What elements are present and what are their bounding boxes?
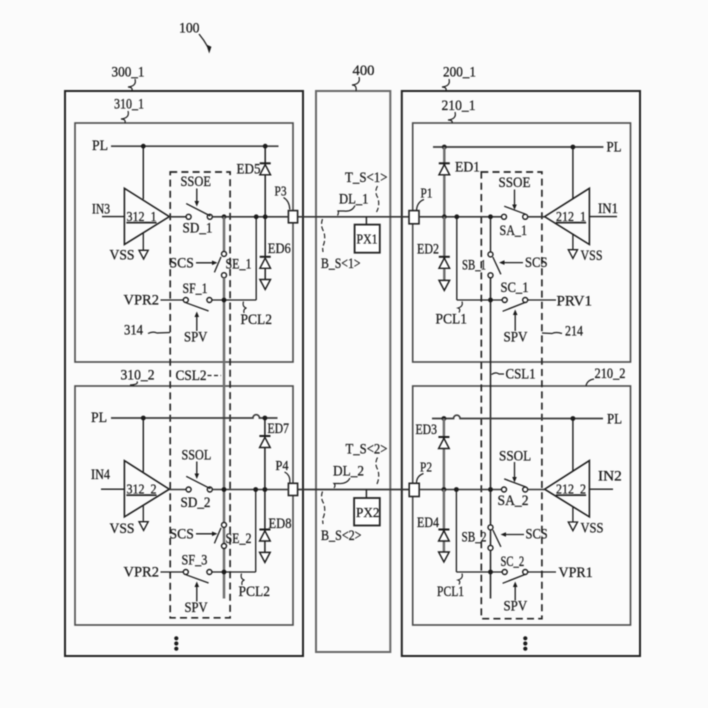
wire SC_1 to PRV1 <box>528 299 556 301</box>
svg-text:314: 314 <box>124 323 144 339</box>
svg-text:SE_1: SE_1 <box>226 257 252 273</box>
label 200_1 with leader <box>442 65 476 92</box>
label ED6 <box>268 241 291 257</box>
label IN2 <box>598 469 622 485</box>
label P1 with leader <box>417 186 433 211</box>
svg-text:VSS: VSS <box>581 248 603 264</box>
junction main wire at ED7/ED8 (310_2) <box>263 487 268 492</box>
svg-text:ED3: ED3 <box>416 422 438 438</box>
wire PL to amplifier 312_1 <box>142 146 144 199</box>
ground VSS (310_2) <box>139 522 148 531</box>
op-amp 212_2 <box>545 461 590 517</box>
wire PCL1 riser to switch SC_2 <box>456 571 502 573</box>
junction SC_2 wire at CSL1 <box>488 570 493 575</box>
junction main wire at CSL2 (310_2) <box>222 487 227 492</box>
wire SA_1 to amp 212_1 <box>528 216 545 218</box>
label B_S<2> with leader <box>321 492 362 545</box>
label 314 with leader <box>124 323 170 339</box>
node DL_2 wire (P4 to P2 through block 400) <box>298 489 410 491</box>
line CSL2 segment in 310_1 <box>223 217 225 252</box>
switch SF_1 <box>183 281 212 311</box>
svg-text:SPV: SPV <box>185 600 209 616</box>
svg-text:SE_2: SE_2 <box>226 531 252 547</box>
wire PL to amplifier 312_2 <box>142 418 144 472</box>
svg-text:ED8: ED8 <box>269 516 292 532</box>
switch SE_2 <box>214 522 251 548</box>
svg-text:DL_1: DL_1 <box>339 192 369 208</box>
svg-text:VSS: VSS <box>581 521 604 537</box>
wire SA_2 to amp 212_2 <box>528 489 545 491</box>
svg-text:SF_1: SF_1 <box>183 281 208 297</box>
net PL line (210_1) <box>433 146 603 148</box>
box 210_1 outline <box>413 123 631 362</box>
svg-text:SCS: SCS <box>526 527 548 543</box>
label ED1 <box>455 160 480 176</box>
wire IN4 input <box>101 488 124 490</box>
switch SC_1 <box>501 280 529 311</box>
label VPR2 (310_2) <box>124 564 160 580</box>
label VSS (210_2) <box>581 521 604 537</box>
wire SF_3 to PCL2 riser <box>212 571 256 573</box>
label SCS (310_1) with control arrow <box>170 255 218 271</box>
wire amp 212_2 to VSS ground <box>572 506 574 522</box>
pad P4 <box>288 483 297 495</box>
wire PCL2 riser (310_1) <box>255 217 257 300</box>
svg-text:PL: PL <box>91 410 107 426</box>
wire pad P2 to switch SA_2 <box>419 489 501 491</box>
wire IN1 input <box>589 216 617 218</box>
svg-text:PCL2: PCL2 <box>239 584 271 600</box>
label SPV (210_1) with control arrow <box>504 310 528 346</box>
label CSL1 with leader <box>492 367 536 383</box>
junction SF_1 wire at CSL2 <box>222 298 227 303</box>
wire amp output to switch SD_2 <box>169 489 186 491</box>
svg-text:CSL2: CSL2 <box>176 368 207 384</box>
label SSOE (210_1) with control arrow <box>499 175 531 210</box>
switch SC_2 <box>501 554 528 583</box>
label 210_2 with leader <box>586 366 626 386</box>
svg-text:CSL1: CSL1 <box>506 367 536 383</box>
switch SF_3 <box>182 553 212 584</box>
svg-text:VSS: VSS <box>110 248 135 264</box>
svg-text:IN4: IN4 <box>91 467 111 483</box>
svg-text:B_S<2>: B_S<2> <box>321 528 362 544</box>
junction on PL at amp supply (210_2) <box>571 416 576 421</box>
svg-text:ED4: ED4 <box>417 515 440 531</box>
svg-text:ED6: ED6 <box>268 241 291 257</box>
junction main wire at PCL2 riser (310_2) <box>253 487 258 492</box>
diode ED7 <box>259 418 270 490</box>
svg-text:SPV: SPV <box>504 330 528 346</box>
label P2 with leader <box>417 460 433 484</box>
wire VPR2 to switch SF_3 <box>161 571 184 573</box>
wire amp 312_2 to VSS ground <box>142 506 144 522</box>
svg-text:PL: PL <box>607 140 622 156</box>
wire SD_1 to pad P3 <box>212 216 288 218</box>
svg-text:PCL1: PCL1 <box>437 584 464 600</box>
box 210_2 outline <box>413 386 631 625</box>
switch SB_1 <box>462 252 501 278</box>
dashed selector box 214 (right column) <box>481 172 542 619</box>
switch SE_1 <box>214 251 251 277</box>
label T_S<1> with leader <box>345 170 388 212</box>
block 300_1 outline <box>65 91 303 656</box>
svg-text:SB_1: SB_1 <box>462 257 486 273</box>
net PL line (310_1) <box>111 145 279 147</box>
svg-text:SA_1: SA_1 <box>500 223 528 239</box>
node DL_1 wire (P3 to P1 through block 400) <box>298 216 409 218</box>
svg-text:PCL2: PCL2 <box>241 312 273 328</box>
junction on PL at amp supply (310_2) <box>141 416 146 421</box>
label VSS (210_1) <box>581 248 603 264</box>
svg-text:210_2: 210_2 <box>595 366 626 382</box>
svg-text:PX1: PX1 <box>357 232 378 248</box>
svg-text:T_S<2>: T_S<2> <box>346 442 388 458</box>
wire SF_1 to PCL2 riser <box>212 299 256 301</box>
svg-text:VPR1: VPR1 <box>559 565 593 581</box>
op-amp 312_1 <box>124 188 169 244</box>
svg-text:400: 400 <box>353 63 375 79</box>
junction main wire at ED3/ED4 (210_2) <box>442 487 447 492</box>
label PL (310_1) <box>92 138 108 154</box>
label DL_1 with leader <box>338 192 369 216</box>
svg-text:SCS: SCS <box>525 255 548 271</box>
svg-text:SF_3: SF_3 <box>182 553 208 569</box>
label 310_1 with leader <box>114 97 144 124</box>
box 310_1 outline <box>75 123 293 362</box>
junction main wire at PCL1 riser (210_2) <box>454 487 459 492</box>
switch SA_1 <box>500 206 528 239</box>
label PCL1 (210_1) with leader <box>436 302 468 328</box>
svg-text:SSOE: SSOE <box>499 175 531 191</box>
continuation dots (right block) <box>523 636 527 651</box>
svg-text:B_S<1>: B_S<1> <box>321 256 361 272</box>
svg-text:ED2: ED2 <box>417 241 439 257</box>
svg-text:VSS: VSS <box>110 521 135 537</box>
junction main wire at ED5/ED6 (310_1) <box>263 214 268 219</box>
wire IN3 input <box>102 216 124 218</box>
label IN3 <box>92 202 110 218</box>
label SPV (210_2) with control arrow <box>504 582 528 615</box>
svg-text:SC_1: SC_1 <box>501 280 529 296</box>
wire PL to amplifier 212_2 <box>572 419 574 472</box>
label SCS (210_2) with control arrow <box>501 527 548 543</box>
label SSOL (310_2) with control arrow <box>182 448 212 480</box>
label ED8 <box>269 516 292 532</box>
svg-text:P4: P4 <box>276 458 289 474</box>
diode ED8 with down arrow <box>259 490 270 563</box>
label SCS (310_2) with control arrow <box>170 526 218 542</box>
junction on PL at ED3 <box>442 416 447 421</box>
switch SD_1 <box>183 204 213 237</box>
svg-text:210_1: 210_1 <box>442 98 476 114</box>
junction main wire at ED1/ED2 (210_1) <box>442 214 447 219</box>
svg-text:SA_2: SA_2 <box>498 493 529 509</box>
svg-text:312_2: 312_2 <box>127 483 157 498</box>
label CSL2 with dashes <box>176 368 222 384</box>
svg-text:SC_2: SC_2 <box>501 554 525 570</box>
switch SB_2 <box>462 525 501 551</box>
line CSL1 from SB_1 down through 210_2 <box>490 278 492 599</box>
label IN1 <box>598 201 618 217</box>
junction on PL at ED1 <box>442 145 447 150</box>
label SPV (310_1) with control arrow <box>184 312 208 346</box>
junction main wire at SB_1 (210_1) <box>488 214 493 219</box>
svg-text:DL_2: DL_2 <box>333 464 364 480</box>
diode ED4 with down arrow <box>438 490 449 563</box>
wire amp 312_1 to VSS ground <box>142 234 144 251</box>
svg-text:312_1: 312_1 <box>127 210 157 225</box>
label VPR1 <box>559 565 593 581</box>
junction on PL at amp supply (310_1) <box>141 144 146 149</box>
svg-text:SD_2: SD_2 <box>181 495 211 511</box>
svg-text:PL: PL <box>607 412 622 428</box>
block 400 outline <box>316 91 390 652</box>
svg-text:IN1: IN1 <box>598 201 618 217</box>
wire SD_2 to pad P4 <box>212 489 288 491</box>
svg-text:PL: PL <box>92 138 108 154</box>
label P4 with leader <box>276 458 290 483</box>
wire PL to amplifier 212_1 <box>572 147 574 199</box>
wire SB_1 stub from main wire <box>490 217 492 252</box>
line CSL2 from SE_1 down through 310_2 <box>223 278 225 599</box>
svg-text:SSOL: SSOL <box>182 448 212 464</box>
wire amp output to switch SD_1 <box>169 216 186 218</box>
label DL_2 with leader <box>333 464 364 489</box>
pad P3 <box>288 211 297 223</box>
label PCL1 (210_2) with leader <box>437 574 464 601</box>
svg-text:SD_1: SD_1 <box>183 221 213 237</box>
svg-text:VPR2: VPR2 <box>124 292 160 308</box>
wire pad P1 to switch SA_1 <box>419 216 502 218</box>
svg-text:P3: P3 <box>275 184 287 200</box>
pixel PX1 box with stub <box>355 217 380 253</box>
svg-text:VPR2: VPR2 <box>124 564 160 580</box>
label PL (310_2) <box>91 410 107 426</box>
label B_S<1> with leader <box>321 219 361 272</box>
svg-text:IN3: IN3 <box>92 202 110 218</box>
diode ED6 with down arrow <box>260 217 271 290</box>
junction main wire at CSL1 (210_2) <box>488 487 493 492</box>
wire amp 212_1 to VSS ground <box>572 234 574 250</box>
label ED3 <box>416 422 438 438</box>
label VSS (310_2) <box>110 521 135 537</box>
label ED2 <box>417 241 439 257</box>
wire SC_2 to VPR1 <box>528 571 556 573</box>
label 400 with leader <box>352 63 375 91</box>
label IN4 <box>91 467 111 483</box>
wire VPR2 to switch SF_1 <box>161 299 184 301</box>
svg-text:310_2: 310_2 <box>121 368 155 384</box>
wire PCL1 riser (210_1) <box>456 217 458 300</box>
label PL (210_2) <box>607 412 622 428</box>
switch SD_2 <box>181 476 213 511</box>
junction main wire at CSL2 (310_1) <box>222 214 227 219</box>
svg-text:SB_2: SB_2 <box>462 530 487 546</box>
diode ED1 <box>439 147 450 217</box>
svg-text:212_2: 212_2 <box>556 483 586 498</box>
svg-text:214: 214 <box>565 324 584 340</box>
label VSS (310_1) <box>110 248 135 264</box>
junction on PL at ED5 (310_1) <box>263 144 268 149</box>
label 210_1 with leader <box>442 98 476 123</box>
svg-text:PCL1: PCL1 <box>436 312 468 328</box>
box 310_2 outline <box>75 386 293 625</box>
ground VSS (310_1) <box>139 250 148 259</box>
svg-text:SCS: SCS <box>170 526 194 542</box>
label VPR2 (310_1) <box>124 292 160 308</box>
svg-text:ED5: ED5 <box>237 162 261 178</box>
wire IN2 input <box>589 488 613 490</box>
label ED7 <box>268 421 290 437</box>
label SPV (310_2) with control arrow <box>185 582 209 617</box>
wire PCL2 riser (310_2) <box>255 490 257 573</box>
dashed selector box 314 (left column) <box>170 172 230 618</box>
svg-text:ED7: ED7 <box>268 421 290 437</box>
svg-text:310_1: 310_1 <box>114 97 144 113</box>
label PL (210_1) <box>607 140 622 156</box>
label SSOL (210_2) with control arrow <box>499 449 531 483</box>
label PCL2 (310_1) with leader <box>241 302 273 329</box>
label PRV1 <box>557 294 593 310</box>
op-amp 312_2 <box>124 461 169 517</box>
ground VSS (210_2) <box>568 522 577 531</box>
diode ED5 <box>260 146 271 217</box>
svg-text:IN2: IN2 <box>598 469 622 485</box>
label PCL2 (310_2) with leader <box>239 574 271 601</box>
reference numeral 100 with leader arrow <box>179 20 211 53</box>
net PL line (210_2) <box>432 415 603 418</box>
label T_S<2> with leader <box>346 442 388 486</box>
switch SA_2 <box>498 479 529 509</box>
junction on PL at ED7 <box>263 416 268 421</box>
svg-text:P2: P2 <box>420 460 432 476</box>
svg-text:SSOE: SSOE <box>181 174 212 190</box>
label ED5 <box>237 162 261 178</box>
svg-text:PX2: PX2 <box>356 505 380 521</box>
svg-text:100: 100 <box>179 20 200 36</box>
label 310_2 with leader <box>121 368 155 387</box>
svg-text:SCS: SCS <box>170 255 194 271</box>
svg-text:SPV: SPV <box>504 599 528 615</box>
diode ED3 <box>438 419 449 490</box>
junction main wire at PCL1 riser (210_1) <box>454 214 459 219</box>
diode ED2 with down arrow <box>439 217 450 291</box>
pad P2 <box>409 483 419 496</box>
pad P1 <box>409 211 419 224</box>
block 200_1 outline <box>402 91 640 656</box>
junction SF_3 wire at CSL2 <box>222 570 227 575</box>
op-amp 212_1 <box>545 188 590 244</box>
label 300_1 with leader <box>112 65 145 92</box>
junction SC_1 wire at CSL1 <box>488 298 493 303</box>
svg-text:ED1: ED1 <box>455 160 480 176</box>
label ED4 <box>417 515 440 531</box>
svg-text:PRV1: PRV1 <box>557 294 593 310</box>
svg-text:SPV: SPV <box>184 330 208 346</box>
wire PCL1 riser (210_2) <box>455 490 457 573</box>
svg-text:T_S<1>: T_S<1> <box>345 170 388 186</box>
svg-text:P1: P1 <box>421 186 433 202</box>
wire PCL1 riser to switch SC_1 <box>457 299 502 301</box>
ground VSS (210_1) <box>568 250 577 259</box>
continuation dots (left block) <box>174 636 178 651</box>
svg-text:200_1: 200_1 <box>443 65 476 81</box>
label P3 with leader <box>275 184 290 210</box>
label SCS (210_1) with control arrow <box>499 255 548 271</box>
pixel PX2 box with stub <box>354 490 380 526</box>
label SSOE (310_1) with control arrow <box>181 174 212 207</box>
net PL line (310_2) <box>111 415 278 418</box>
svg-text:212_1: 212_1 <box>556 210 586 225</box>
svg-text:300_1: 300_1 <box>112 65 145 81</box>
label 214 with leader <box>542 324 584 340</box>
junction on PL at amp supply (210_1) <box>571 145 576 150</box>
junction main wire at PCL2 riser (310_1) <box>254 214 259 219</box>
